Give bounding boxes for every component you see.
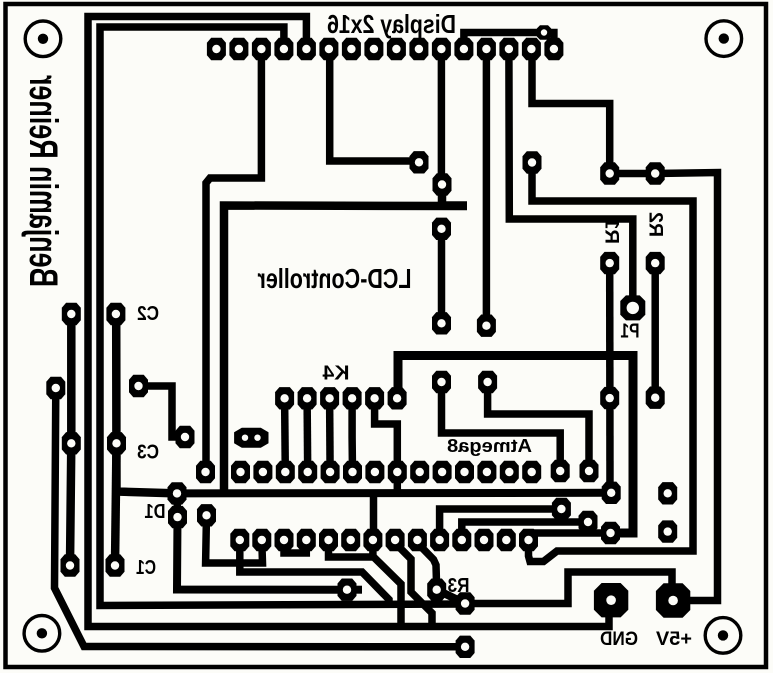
svg-text:+5V: +5V bbox=[656, 629, 692, 650]
svg-text:C3: C3 bbox=[137, 442, 159, 464]
svg-text:LCD-Controller: LCD-Controller bbox=[257, 263, 411, 294]
svg-text:D1: D1 bbox=[145, 501, 166, 523]
svg-text:R2: R2 bbox=[645, 212, 666, 237]
svg-text:R1: R1 bbox=[601, 218, 622, 244]
svg-text:Atmega8: Atmega8 bbox=[447, 436, 532, 456]
svg-text:C2: C2 bbox=[137, 303, 159, 325]
svg-text:R3: R3 bbox=[448, 575, 470, 597]
svg-text:GND: GND bbox=[600, 629, 638, 650]
svg-text:P1: P1 bbox=[621, 321, 640, 343]
svg-text:K4: K4 bbox=[322, 363, 350, 385]
svg-text:C1: C1 bbox=[136, 557, 156, 579]
svg-text:Benjamin Reiner: Benjamin Reiner bbox=[21, 75, 65, 287]
svg-text:Display 2x16: Display 2x16 bbox=[327, 9, 456, 39]
